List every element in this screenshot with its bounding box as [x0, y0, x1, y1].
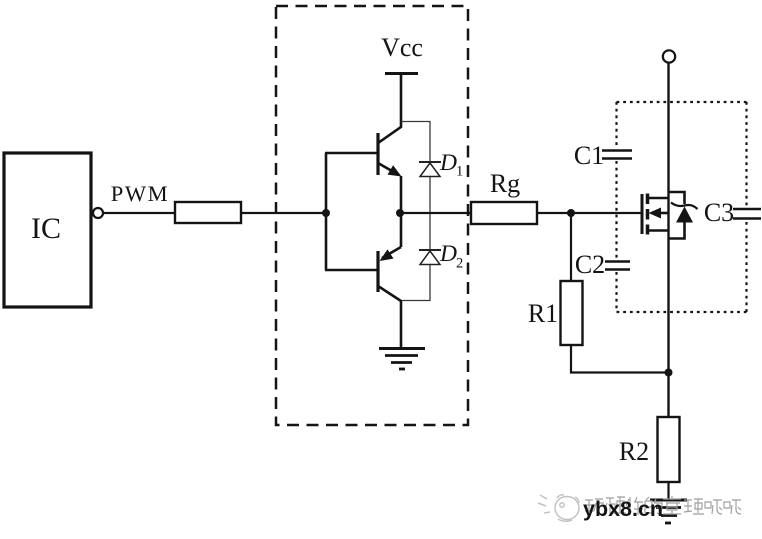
svg-text:D: D — [439, 150, 457, 176]
svg-text:2: 2 — [456, 256, 463, 272]
label D2 — [439, 241, 463, 272]
svg-text:R2: R2 — [619, 437, 649, 466]
resistor R2 — [658, 417, 680, 482]
svg-text:C3: C3 — [704, 198, 734, 227]
input series resistor — [175, 202, 241, 223]
svg-text:Rg: Rg — [490, 169, 520, 198]
capacitor C3 — [733, 209, 761, 219]
wire resistor to driver input node — [241, 212, 326, 214]
label Rg — [490, 169, 520, 198]
label C1 — [574, 141, 604, 170]
svg-text:1: 1 — [456, 164, 463, 180]
wire D2 bottom to Q2 collector — [402, 265, 430, 301]
ground output side — [650, 500, 687, 523]
node B driver output junction — [396, 209, 404, 217]
node A driver input junction — [322, 209, 330, 217]
dotted box parasitic capacitances — [617, 102, 747, 312]
wire Q1 base — [325, 152, 378, 155]
diode D1 — [419, 162, 441, 177]
label D1 — [439, 150, 463, 180]
IC U1 box — [4, 153, 91, 307]
label C2 — [575, 250, 605, 279]
svg-text:C1: C1 — [574, 141, 604, 170]
svg-text:ybx8.cn: ybx8.cn — [583, 497, 663, 521]
svg-text:R1: R1 — [528, 299, 558, 328]
wire PWM terminal to input resistor — [103, 212, 175, 214]
node D source junction — [665, 369, 673, 377]
svg-text:C2: C2 — [575, 250, 605, 279]
wire Q2 base — [325, 269, 378, 272]
wire R2 to ground — [667, 482, 669, 499]
resistor R1 — [561, 281, 583, 345]
MOSFET Q3 N-channel — [642, 194, 669, 235]
svg-text:D: D — [439, 241, 457, 267]
svg-text:PWM: PWM — [111, 181, 170, 206]
wire base bus vertical — [325, 153, 328, 270]
Vcc supply bar — [385, 72, 418, 75]
IC label — [31, 212, 61, 245]
svg-text:IC: IC — [31, 212, 61, 245]
wire gate node down to R1 — [570, 213, 572, 281]
wire driver output to Rg — [400, 212, 471, 214]
drain open terminal — [663, 50, 675, 62]
PWM net label — [111, 181, 170, 206]
wire drain vertical main line — [667, 63, 669, 417]
watermark ybx8.cn — [583, 497, 663, 521]
wire Rg to MOSFET gate — [537, 212, 642, 214]
wire D1 to D2 — [429, 177, 431, 249]
wire R1 bottom to source node — [571, 345, 669, 373]
capacitor C1 — [602, 151, 632, 159]
watermark chinese text — [585, 496, 741, 515]
capacitor C2 — [605, 262, 630, 270]
wire diode branch top (collector to D1) — [401, 122, 430, 162]
resistor Rg — [471, 202, 537, 224]
label R1 — [528, 299, 558, 328]
diode D2 — [419, 250, 441, 265]
transistor Q2 PNP — [378, 213, 401, 348]
PWM output terminal circle — [93, 208, 103, 218]
transistor Q1 NPN — [378, 75, 402, 213]
label R2 — [619, 437, 649, 466]
label C3 — [704, 198, 734, 227]
body diode of Q3 — [669, 192, 698, 239]
watermark logo — [538, 495, 579, 521]
dashed box around driver stage — [276, 6, 468, 425]
svg-text:Vcc: Vcc — [381, 33, 423, 62]
ground of driver stage — [379, 349, 425, 370]
Vcc label — [381, 33, 423, 62]
node C gate junction — [567, 209, 575, 217]
